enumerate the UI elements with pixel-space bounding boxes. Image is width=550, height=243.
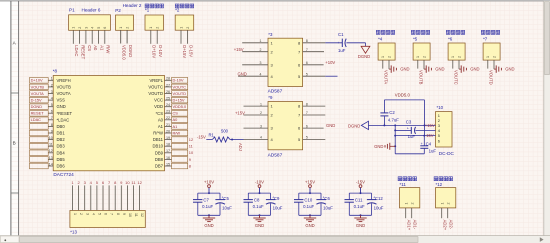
svg-text:7: 7 — [306, 48, 308, 52]
svg-text:GND: GND — [305, 223, 314, 228]
svg-text:C3: C3 — [406, 119, 412, 124]
svg-text:2: 2 — [457, 56, 461, 58]
svg-text:GND: GND — [400, 67, 409, 72]
ic U3 AD587 — [268, 32, 303, 95]
svg-text:4: 4 — [91, 27, 95, 29]
wire P2 pin 1 — [121, 30, 127, 60]
port DB4 — [30, 150, 49, 156]
power +15V — [305, 179, 315, 194]
svg-text:4: 4 — [260, 136, 262, 140]
wire *13 pin 8 — [114, 185, 116, 210]
svg-text:D-10V: D-10V — [158, 45, 163, 57]
capacitor C5 10uF — [215, 193, 232, 215]
wire U8 right pin 23 — [165, 110, 172, 114]
svg-text:1uF: 1uF — [408, 134, 416, 139]
svg-text:D+10V: D+10V — [152, 45, 157, 58]
svg-text:10uF: 10uF — [374, 206, 384, 211]
wire U8 left pin 3 — [48, 90, 53, 94]
zone label A — [13, 40, 17, 45]
svg-text:R/*W: R/*W — [153, 131, 163, 136]
svg-text:Header 2: Header 2 — [123, 3, 142, 8]
svg-text:2: 2 — [186, 27, 190, 29]
svg-text:*8: *8 — [53, 69, 58, 74]
svg-text:A0: A0 — [173, 117, 179, 122]
svg-text:AD1-: AD1- — [413, 220, 418, 230]
svg-text:8: 8 — [189, 163, 191, 168]
wire *11 pin 1 — [406, 208, 412, 231]
power -15V — [356, 179, 365, 194]
svg-text:*6: *6 — [448, 36, 453, 41]
svg-text:6: 6 — [306, 124, 308, 128]
svg-text:2: 2 — [126, 27, 130, 29]
svg-text:DB1: DB1 — [57, 131, 66, 136]
svg-text:C8: C8 — [254, 198, 260, 203]
svg-text:P1: P1 — [69, 7, 75, 12]
capacitor C9 10uF — [266, 193, 283, 215]
svg-text:0.1uF: 0.1uF — [202, 204, 213, 209]
connector P1 Header 6 — [69, 7, 111, 30]
wire P1 pin 5 — [99, 30, 105, 51]
wire *13 pin 11 — [133, 185, 135, 210]
svg-text:A1: A1 — [173, 124, 178, 129]
svg-text:1: 1 — [416, 56, 420, 58]
wire U8 right pin 16 — [165, 156, 172, 160]
svg-text:10: 10 — [125, 180, 130, 185]
svg-text:25: 25 — [166, 97, 170, 101]
svg-text:VOUTA: VOUTA — [384, 70, 389, 84]
svg-text:*7: *7 — [483, 36, 488, 41]
svg-text:12: 12 — [49, 149, 53, 153]
svg-text:12: 12 — [189, 137, 193, 142]
wire U8 left pin 5 — [48, 103, 53, 107]
port D-10V — [172, 78, 188, 84]
wire *12 pin 1 — [442, 208, 448, 231]
svg-text:VOUTB: VOUTB — [31, 84, 45, 89]
wire cap rail bottom — [248, 214, 270, 216]
svg-text:*9: *9 — [268, 95, 273, 100]
svg-text:GND: GND — [505, 67, 514, 72]
svg-text:2: 2 — [492, 56, 496, 58]
svg-text:GND: GND — [374, 144, 383, 149]
svg-text:+15V: +15V — [305, 179, 315, 184]
svg-text:5: 5 — [98, 213, 102, 215]
connector *2 two-pin header — [175, 4, 194, 30]
port 12 — [172, 137, 194, 143]
svg-text:VREFL: VREFL — [150, 78, 164, 83]
wire U3 pin 6 net +10V — [303, 60, 336, 65]
svg-text:6: 6 — [103, 27, 107, 29]
svg-text:24: 24 — [166, 103, 170, 107]
ground — [253, 215, 265, 228]
svg-text:DB10: DB10 — [153, 144, 164, 149]
svg-text:1uF: 1uF — [429, 149, 437, 154]
svg-text:DB4: DB4 — [57, 150, 66, 155]
wire cap rail top — [349, 192, 371, 194]
svg-text:12: 12 — [137, 180, 142, 185]
wire U8 right pin 22 — [165, 116, 172, 120]
wire cap rail bottom — [349, 214, 371, 216]
svg-text:+: + — [421, 142, 423, 146]
svg-text:DGND: DGND — [128, 45, 133, 57]
power DGND — [358, 46, 370, 59]
ground GND (DC-DC) — [374, 143, 395, 150]
svg-text:+: + — [407, 127, 409, 131]
svg-text:3: 3 — [85, 213, 89, 215]
svg-text:AD587: AD587 — [268, 153, 283, 159]
wire *2 pin 1 — [181, 30, 187, 58]
resistor R1 500 — [209, 129, 231, 142]
capacitor C6 10uF — [316, 193, 333, 215]
svg-text:VOUTA: VOUTA — [57, 91, 71, 96]
svg-text:4: 4 — [51, 97, 53, 101]
svg-text:-15V: -15V — [425, 133, 434, 138]
svg-text:15: 15 — [166, 162, 170, 166]
svg-text:C1: C1 — [338, 32, 344, 37]
wire U3 pin 4 net GND — [238, 71, 269, 76]
svg-text:27: 27 — [166, 83, 170, 87]
svg-text:AD2-: AD2- — [449, 220, 454, 230]
ground — [424, 65, 445, 72]
wire cap rail bottom — [198, 214, 220, 216]
svg-text:C11: C11 — [355, 198, 363, 203]
svg-text:VSS: VSS — [57, 98, 66, 103]
wire *4 pin 1 net VOUTA — [383, 60, 389, 84]
power +10V — [204, 179, 214, 194]
svg-text:RESET: RESET — [81, 45, 86, 59]
svg-text:DGND: DGND — [348, 123, 360, 128]
wire P1 pin 2 — [80, 30, 86, 59]
svg-text:-10V: -10V — [255, 179, 264, 184]
svg-text:Header 6: Header 6 — [82, 7, 101, 12]
wire vertical branch — [394, 125, 396, 153]
svg-text:8: 8 — [51, 123, 53, 127]
svg-text:21: 21 — [166, 123, 170, 127]
wire -15V to R1 — [197, 134, 212, 139]
svg-text:11: 11 — [49, 143, 53, 147]
svg-text:2: 2 — [446, 203, 450, 205]
svg-text:C10: C10 — [304, 198, 312, 203]
wire U8 left pin 10 — [48, 136, 53, 140]
wire C1 to DGND — [346, 43, 365, 47]
wire U8 left pin 2 — [48, 83, 53, 87]
wire U8 left pin 1 — [48, 77, 53, 81]
svg-text:GND: GND — [326, 123, 335, 128]
svg-text:D+15V: D+15V — [173, 98, 185, 103]
port VDD5.0 — [172, 104, 188, 110]
wire *13 pin 5 — [96, 185, 98, 210]
connector *7 two-pin header — [481, 30, 500, 60]
wire P1 pin 4 — [92, 30, 98, 51]
wire *13 pin 10 — [126, 185, 128, 210]
connector *13 Header 12 — [70, 180, 145, 241]
svg-text:*10: *10 — [437, 105, 444, 110]
svg-text:VOUTC: VOUTC — [173, 84, 187, 89]
svg-text:*12: *12 — [436, 182, 443, 187]
svg-text:B: B — [13, 140, 16, 145]
connector P2 Header 2 — [115, 3, 142, 30]
wire U8 right pin 26 — [165, 90, 172, 94]
node junction ADJ — [231, 139, 243, 151]
wire U9 pin 5 — [303, 136, 326, 140]
svg-text:12: 12 — [140, 213, 144, 217]
svg-text:1: 1 — [119, 27, 123, 29]
wire *1 pin 1 — [151, 30, 157, 58]
port A0 — [172, 117, 188, 123]
svg-text:A0: A0 — [158, 117, 164, 122]
svg-text:1: 1 — [179, 27, 183, 29]
svg-text:*11: *11 — [400, 182, 407, 187]
svg-text:22: 22 — [166, 116, 170, 120]
svg-text:7: 7 — [51, 116, 53, 120]
svg-text:VOUTB: VOUTB — [57, 84, 72, 89]
svg-text:16: 16 — [166, 156, 170, 160]
wire *11 pin 2 — [412, 208, 418, 230]
wire U8 right pin 19 — [165, 136, 172, 140]
svg-text:0.1uF: 0.1uF — [253, 204, 264, 209]
port VOUTA — [30, 91, 49, 97]
svg-text:+15V: +15V — [234, 47, 244, 52]
wire U8 right pin 28 — [165, 77, 172, 81]
port DB2 — [30, 137, 49, 143]
svg-text:C9: C9 — [274, 196, 280, 201]
svg-text:C5: C5 — [223, 196, 229, 201]
svg-text:10: 10 — [49, 136, 53, 140]
capacitor C11 0.1uF — [345, 193, 365, 215]
capacitor C10 0.1uF — [294, 193, 314, 215]
svg-text:2: 2 — [78, 27, 82, 29]
svg-text:1: 1 — [404, 203, 408, 205]
svg-text:4: 4 — [260, 72, 262, 76]
svg-text:0.1uF: 0.1uF — [354, 204, 365, 209]
svg-text:DB3: DB3 — [57, 144, 66, 149]
port CS — [172, 111, 188, 117]
wire *13 pin 7 — [108, 185, 110, 210]
svg-text:GND: GND — [204, 223, 213, 228]
svg-text:VDD5.0: VDD5.0 — [122, 45, 127, 60]
svg-text:4: 4 — [91, 213, 95, 215]
svg-text:28: 28 — [166, 77, 170, 81]
port DB0 — [30, 124, 49, 130]
wire *7 pin 2 — [493, 60, 495, 69]
svg-text:C12: C12 — [375, 196, 383, 201]
port R/W — [172, 130, 188, 136]
connector *1 two-pin header — [145, 4, 164, 30]
ground — [203, 215, 215, 228]
svg-text:LDAC: LDAC — [74, 45, 79, 56]
svg-text:5: 5 — [97, 27, 101, 29]
wire U3 pin 5 — [303, 72, 338, 76]
wire U8 left pin 7 — [48, 116, 53, 120]
wire U3 pin 7 — [303, 48, 324, 52]
svg-text:D+10V: D+10V — [31, 78, 43, 83]
svg-text:2: 2 — [422, 56, 426, 58]
svg-text:R/W: R/W — [106, 45, 111, 53]
wire U9 pin 7 — [303, 111, 326, 115]
svg-text:1: 1 — [451, 56, 455, 58]
wire P2 pin 2 — [127, 30, 133, 57]
capacitor C7 0.1uF — [193, 193, 213, 215]
svg-text:*CS: *CS — [156, 111, 164, 116]
port DB6 — [30, 163, 49, 169]
wire *13 pin 2 — [78, 185, 80, 210]
scrollbar — [0, 236, 550, 243]
svg-text:VCC: VCC — [154, 98, 163, 103]
wire U3 pin 2 net +15V — [234, 47, 268, 52]
svg-text:DAC7724: DAC7724 — [53, 172, 74, 177]
svg-text:8: 8 — [306, 102, 308, 106]
capacitor C3 1uF — [395, 119, 435, 139]
power DGND arrow — [348, 121, 369, 129]
svg-text:VOUTA: VOUTA — [31, 91, 45, 96]
svg-text:20: 20 — [166, 129, 170, 133]
wire U8 right pin 20 — [165, 129, 172, 133]
capacitor C12 10uF — [367, 193, 384, 215]
ic U9 AD587 — [268, 95, 303, 158]
connector *12 two-pin header — [434, 177, 456, 208]
wire U8 right pin 25 — [165, 97, 172, 101]
wire U8 right pin 18 — [165, 143, 172, 147]
svg-text:+10V: +10V — [325, 60, 335, 65]
port DB1 — [30, 130, 49, 136]
wire *4 pin 2 — [388, 60, 390, 69]
svg-text:6: 6 — [104, 213, 108, 215]
svg-text:4.7uF: 4.7uF — [388, 117, 399, 122]
svg-text:DB9: DB9 — [155, 150, 164, 155]
svg-text:23: 23 — [166, 110, 170, 114]
svg-text:*LDAC: *LDAC — [57, 117, 70, 122]
svg-text:R/W: R/W — [173, 130, 181, 135]
svg-text:2: 2 — [387, 56, 391, 58]
svg-text:DGND: DGND — [31, 104, 43, 109]
wire *5 pin 1 net VOUTB — [418, 60, 424, 85]
wire U3 pin 8 — [303, 39, 343, 43]
svg-text:DB6: DB6 — [57, 164, 66, 169]
vertical scrollbar — [544, 1, 550, 236]
wire P1 pin 6 — [105, 30, 111, 53]
connector *6 two-pin header — [446, 30, 465, 60]
svg-text:6: 6 — [306, 61, 308, 65]
wire *1 pin 2 — [157, 30, 163, 57]
svg-text:10uF: 10uF — [323, 206, 333, 211]
ic U10 DC-DC — [436, 105, 455, 156]
svg-text:10: 10 — [128, 213, 132, 217]
ground — [304, 215, 316, 228]
svg-text:26: 26 — [166, 90, 170, 94]
wire *2 pin 2 — [187, 30, 193, 57]
svg-text:DGND: DGND — [358, 54, 370, 59]
capacitor C1 1uF — [338, 32, 347, 53]
svg-text:DB0: DB0 — [57, 124, 66, 129]
svg-text:13: 13 — [49, 156, 53, 160]
svg-text:GND: GND — [255, 223, 264, 228]
wire cap rail bottom — [299, 214, 321, 216]
wire U8 left pin 14 — [48, 162, 53, 166]
wire R1 to U9 pin 4 — [230, 136, 268, 140]
svg-text:500: 500 — [221, 129, 229, 134]
connector *5 two-pin header — [411, 30, 430, 60]
svg-text:10uF: 10uF — [222, 206, 232, 211]
wire net VDD5.0 — [384, 93, 424, 126]
svg-text:6: 6 — [438, 138, 440, 143]
port DB5 — [30, 157, 49, 163]
wire P1 pin 1 — [73, 30, 79, 56]
port 10 — [172, 150, 194, 156]
wire net -15V — [395, 125, 435, 138]
svg-text:VOUTD: VOUTD — [148, 91, 163, 96]
svg-text:0.1uF: 0.1uF — [303, 204, 314, 209]
wire P1 pin 3 — [86, 30, 92, 51]
svg-text:DB8: DB8 — [155, 157, 164, 162]
svg-text:5: 5 — [51, 103, 53, 107]
svg-text:DB5: DB5 — [57, 157, 66, 162]
svg-text:9: 9 — [122, 213, 126, 215]
svg-text:VDD5.0: VDD5.0 — [173, 104, 187, 109]
wire U8 right pin 17 — [165, 149, 172, 153]
svg-text:1: 1 — [381, 56, 385, 58]
wire *12 pin 2 — [448, 208, 454, 230]
svg-text:1: 1 — [260, 102, 262, 106]
wire U3 pin 3 — [242, 61, 268, 65]
svg-text:VOUTD: VOUTD — [489, 70, 494, 85]
ground — [459, 65, 480, 72]
svg-text:5: 5 — [306, 136, 308, 140]
svg-text:1: 1 — [440, 203, 444, 205]
svg-text:VREFH: VREFH — [57, 78, 71, 83]
svg-text:-15V: -15V — [197, 134, 206, 139]
port RESET — [30, 111, 49, 117]
svg-text:11: 11 — [134, 213, 138, 217]
svg-text:D+15V: D+15V — [182, 45, 187, 58]
power -10V — [255, 179, 264, 194]
svg-text:2: 2 — [156, 27, 160, 29]
svg-text:GND: GND — [470, 67, 479, 72]
wire U8 right pin 21 — [165, 123, 172, 127]
svg-text:*2: *2 — [175, 8, 180, 13]
svg-text:VDD5.0: VDD5.0 — [395, 93, 411, 98]
svg-text:AD2+: AD2+ — [443, 220, 448, 231]
wire U8 left pin 8 — [48, 123, 53, 127]
svg-text:RESET: RESET — [31, 111, 45, 116]
svg-text:VOUTD: VOUTD — [173, 91, 187, 96]
svg-text:2: 2 — [260, 48, 262, 52]
port VOUTC — [172, 84, 188, 90]
port 8 — [172, 163, 191, 169]
wire *13 pin 3 — [84, 185, 86, 210]
wire U9 pin 1 — [244, 102, 269, 106]
wire U9 pin 8 — [303, 102, 326, 106]
wire U9 pin 3 — [244, 124, 269, 128]
wire U3 pin 1 — [242, 39, 268, 43]
svg-text:9: 9 — [51, 129, 53, 133]
svg-text:VOUTB: VOUTB — [419, 70, 424, 85]
connector *11 two-pin header — [398, 177, 420, 208]
svg-text:5: 5 — [306, 72, 308, 76]
svg-text:D-15V: D-15V — [31, 98, 42, 103]
svg-text:17: 17 — [166, 149, 170, 153]
port VOUTD — [172, 91, 188, 97]
svg-text:A1: A1 — [99, 45, 104, 51]
svg-text:DB7: DB7 — [155, 164, 164, 169]
svg-text:C6: C6 — [324, 196, 330, 201]
capacitor C4 1uF — [420, 136, 436, 154]
ground — [354, 215, 366, 228]
wire *13 pin 12 — [139, 185, 141, 210]
svg-text:+10V: +10V — [204, 179, 214, 184]
svg-text:*3: *3 — [268, 32, 273, 37]
wire *13 pin 1 — [72, 185, 74, 210]
svg-text:*4: *4 — [378, 36, 383, 41]
port DB3 — [30, 143, 49, 149]
